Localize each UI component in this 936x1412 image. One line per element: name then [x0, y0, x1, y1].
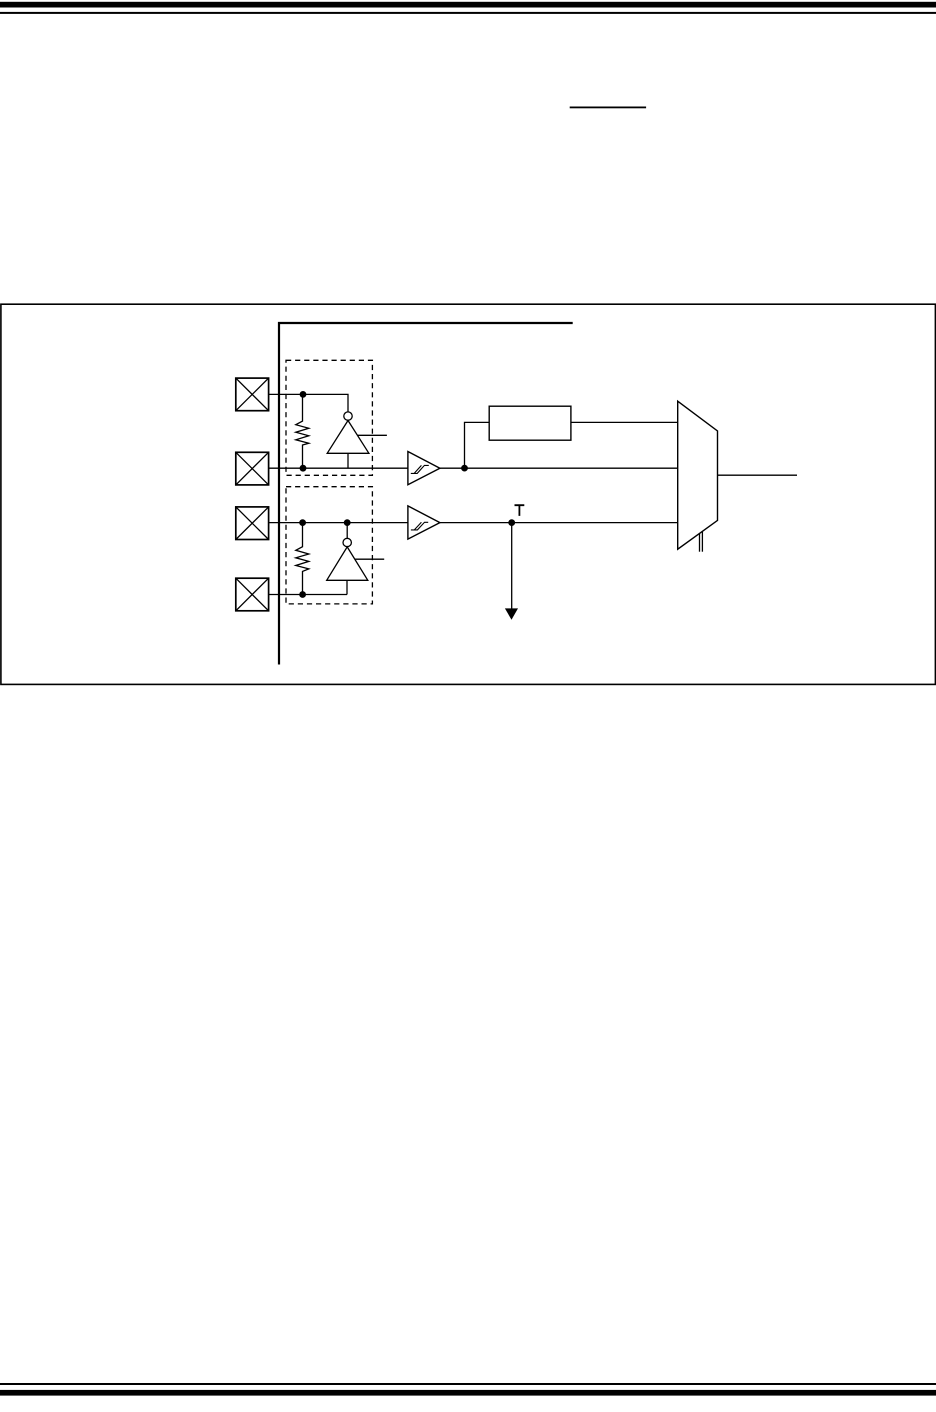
wire node B up to delay box — [465, 422, 490, 468]
pad 1 — [236, 378, 269, 411]
node dot C2 — [344, 519, 351, 526]
wire U1 base to pad2 net — [347, 453, 349, 468]
overline of signal name in heading — [570, 107, 646, 109]
pad 4 — [236, 578, 269, 611]
footer thick rule — [0, 1390, 936, 1396]
pad 2 — [236, 452, 269, 485]
resistor R2 (pull-up) — [296, 523, 309, 595]
dashed box 1 (pull-up cell) — [286, 360, 372, 475]
node dot B — [461, 465, 468, 472]
node dot A2 — [300, 465, 307, 472]
resistor R1 (pull-up) — [296, 394, 309, 468]
enable stub U1 — [358, 434, 387, 436]
mux U5 — [678, 401, 718, 549]
node dot C1 — [299, 519, 306, 526]
node dot C3 — [299, 591, 306, 598]
internal bus corner (thick L) — [279, 323, 573, 665]
delay box — [489, 406, 571, 440]
dashed box 2 (pull-up cell) — [286, 487, 372, 604]
header thick rule — [0, 2, 936, 8]
wire node T down — [511, 523, 513, 610]
Schmitt trigger U4 — [408, 506, 440, 539]
enable stub U2 — [355, 558, 384, 560]
wire U3 output to mux input 2 — [440, 467, 678, 469]
wire pad3 to Schmitt U4 input — [269, 522, 408, 524]
Schmitt trigger U3 — [408, 452, 440, 485]
wire U2 base to pad4 net — [346, 580, 348, 594]
mux select line S1 — [701, 531, 703, 551]
inverter U2 bubble — [343, 538, 351, 546]
wire mux output — [718, 474, 798, 476]
wire pad2 to Schmitt U3 input — [269, 467, 408, 469]
label T — [515, 504, 525, 516]
inverter U2 triangle — [327, 547, 368, 580]
footer thin rule — [0, 1383, 936, 1385]
inverter U1 triangle — [327, 421, 369, 454]
wire pad1 to inverter U1 bubble corner — [269, 394, 348, 412]
mux select line S0 — [699, 534, 701, 552]
node dot T — [508, 519, 515, 526]
pad 3 — [236, 507, 269, 540]
figure frame — [1, 304, 936, 684]
header thin rule — [0, 12, 936, 14]
arrowhead — [505, 608, 518, 619]
wire node C2 to inverter U2 bubble — [346, 523, 348, 539]
node dot A1 — [300, 391, 307, 398]
wire U4 output to mux input 3 — [440, 522, 678, 524]
inverter U1 bubble — [344, 412, 352, 420]
wire delay box to mux input 1 — [571, 421, 678, 423]
wire pad4 to U2 base — [269, 594, 347, 596]
